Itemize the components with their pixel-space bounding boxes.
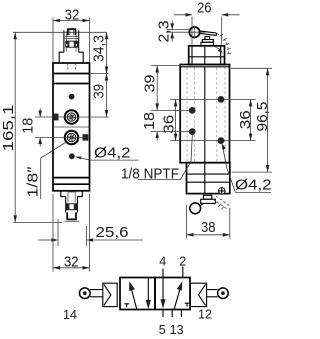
svg-text:34,3: 34,3 bbox=[91, 35, 108, 62]
screw left column lower bbox=[189, 128, 196, 135]
svg-text:2,3: 2,3 bbox=[156, 21, 173, 43]
dim 36 right: extension lines bbox=[225, 99, 256, 140]
dim 165,1: bottom extension line bbox=[13, 221, 62, 223]
mounting hole lower bbox=[69, 153, 75, 159]
dim 165,1: dimension line with arrows bbox=[13, 32, 17, 222]
svg-text:2: 2 bbox=[179, 254, 186, 268]
screw left column upper bbox=[189, 107, 196, 114]
label Ø4,2 side: leader with arrow bbox=[222, 143, 271, 192]
valve box left square bbox=[120, 278, 155, 310]
svg-text:39: 39 bbox=[142, 75, 159, 93]
dim 18: dimension line with outside arrows bbox=[38, 109, 42, 147]
plunger nut bbox=[201, 37, 213, 46]
dim 34,3: extension line right of body bbox=[90, 73, 109, 75]
svg-text:14: 14 bbox=[63, 308, 77, 322]
side port square right bbox=[83, 134, 89, 140]
port 1 centerline bbox=[35, 116, 109, 118]
screw right column upper bbox=[218, 96, 225, 103]
side port square left bbox=[53, 114, 58, 121]
lever direction arrow bbox=[214, 46, 223, 53]
port 1 stub bbox=[171, 310, 173, 318]
top plunger cap bbox=[68, 29, 76, 35]
port 3 stub bbox=[180, 310, 182, 318]
left square exhaust line with arrow bbox=[146, 278, 151, 309]
dim 25,6: extension lines bbox=[58, 219, 86, 246]
dim 32 top: extension lines bbox=[53, 18, 90, 63]
dim 25,6: dimension line with outside arrows bbox=[38, 238, 143, 242]
roller centerline bbox=[166, 31, 206, 33]
svg-text:26: 26 bbox=[197, 0, 212, 17]
svg-text:4: 4 bbox=[159, 254, 166, 268]
left actuator box with roller wedge bbox=[103, 283, 117, 306]
right actuator stem bbox=[207, 290, 218, 297]
dim 34,3: arrows bbox=[105, 32, 109, 73]
dim 36 left: dimension line bbox=[174, 99, 178, 140]
svg-text:32: 32 bbox=[65, 7, 80, 24]
right square blocked port T bbox=[185, 303, 190, 306]
svg-text:25,6: 25,6 bbox=[96, 224, 129, 241]
mounting hole upper bbox=[69, 94, 75, 100]
right actuator roller bbox=[218, 288, 229, 299]
dim 34,3 / 39: shared dimension line bbox=[106, 32, 108, 117]
bottom plunger cap bbox=[65, 212, 80, 221]
svg-text:165,1: 165,1 bbox=[0, 105, 17, 152]
dim 39: arrows bbox=[105, 74, 109, 118]
svg-text:36: 36 bbox=[161, 115, 178, 134]
svg-text:1/8″: 1/8″ bbox=[25, 166, 42, 198]
port 2 centerline bbox=[35, 137, 90, 139]
bottom plunger plug bbox=[201, 195, 216, 203]
svg-text:Ø4,2: Ø4,2 bbox=[94, 145, 131, 162]
dim 2,3: dimension line with outside arrows bbox=[170, 21, 174, 42]
valve body front bbox=[53, 63, 90, 191]
dim 2,3: extension line bbox=[167, 29, 191, 31]
dim 32 top: dimension line with arrows bbox=[53, 19, 90, 23]
dim 32 bottom: dimension line with arrows bbox=[53, 266, 90, 270]
svg-text:36: 36 bbox=[237, 110, 254, 129]
label 1/8 inch: leader bbox=[41, 143, 66, 199]
port 5 stub bbox=[162, 310, 164, 318]
dim 39 side: extension line at body top bbox=[151, 65, 180, 67]
top roller (end view, dark band) bbox=[65, 41, 78, 48]
bottom roller lever circle bbox=[190, 203, 204, 214]
right square 4-5 line with arrow bbox=[160, 269, 165, 309]
bottom screw with cross bbox=[218, 187, 225, 194]
left actuator roller bbox=[80, 288, 91, 299]
bottom plunger flange bbox=[61, 192, 83, 197]
svg-text:12: 12 bbox=[198, 308, 212, 322]
svg-text:Ø4,2: Ø4,2 bbox=[235, 177, 272, 194]
dim 38: extension lines bbox=[187, 205, 230, 239]
svg-text:32: 32 bbox=[64, 253, 79, 270]
lever arm bbox=[200, 31, 217, 36]
screw right column lower bbox=[218, 137, 225, 144]
right square 1-2 diagonal with arrow bbox=[174, 281, 182, 309]
dim 165,1: top extension line bbox=[13, 31, 107, 33]
svg-text:18: 18 bbox=[141, 112, 158, 130]
dim 96,5: dimension line bbox=[266, 68, 270, 172]
dim 38: dimension line with arrows bbox=[187, 233, 230, 237]
label Ø4,2 (front view) leader bbox=[75, 157, 139, 161]
bottom roller (end view, dark band) bbox=[66, 203, 78, 210]
bottom cap bbox=[187, 163, 230, 194]
svg-text:5: 5 bbox=[159, 323, 166, 337]
left actuator stem bbox=[90, 290, 103, 297]
bottom plunger housing bbox=[66, 192, 78, 212]
valve box right square bbox=[155, 278, 190, 310]
dim 26: extension lines bbox=[192, 17, 222, 45]
top roller lever circle bbox=[189, 26, 199, 39]
dim 18 side: extension lines to screws bbox=[151, 110, 192, 131]
svg-text:3: 3 bbox=[177, 323, 184, 337]
dim 26: dimension line with outside arrows bbox=[174, 13, 240, 17]
port 2 circle bbox=[65, 131, 79, 145]
dim 36 left: extension lines bbox=[170, 99, 221, 140]
label 1/8 NPTF: leader bbox=[138, 135, 193, 179]
side view head plate bbox=[189, 46, 225, 65]
port 1 circle bbox=[65, 110, 79, 124]
left square blocked port T bbox=[124, 304, 129, 307]
port 2 stub bbox=[182, 267, 184, 278]
svg-text:38: 38 bbox=[201, 219, 216, 236]
dim 36 right: dimension line bbox=[249, 99, 253, 140]
side view main body bbox=[180, 65, 229, 163]
right actuator box with roller wedge bbox=[190, 283, 206, 306]
lever swing phantom arc bbox=[217, 33, 232, 53]
top plunger housing bbox=[64, 30, 79, 52]
svg-text:96,5: 96,5 bbox=[254, 102, 271, 132]
svg-text:1: 1 bbox=[170, 323, 177, 337]
dim 39 side: dimension line bbox=[155, 66, 159, 111]
left square flow path diagonal bbox=[129, 281, 137, 310]
dim 32 bottom: extension lines bbox=[53, 194, 90, 272]
svg-text:18: 18 bbox=[20, 118, 37, 134]
dim 18 side: bottom outside arrow bbox=[155, 132, 159, 141]
svg-text:39: 39 bbox=[91, 84, 108, 99]
dim 96,5: extension lines bbox=[231, 68, 272, 172]
bottom lever phantom bbox=[213, 196, 230, 210]
top plunger flange bbox=[59, 52, 83, 71]
